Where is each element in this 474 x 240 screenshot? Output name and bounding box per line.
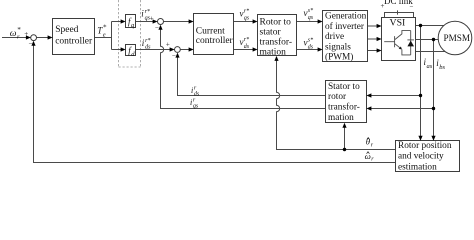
svg-text:−: − [155, 23, 159, 31]
svg-text:ds: ds [308, 45, 314, 51]
svg-text:+: + [166, 41, 170, 49]
svg-text:ds: ds [244, 44, 250, 50]
svg-text:r*: r* [145, 38, 150, 44]
svg-text:r: r [371, 157, 374, 163]
svg-text:ds: ds [145, 45, 151, 51]
svg-text:i: i [190, 98, 192, 107]
svg-text:bs: bs [439, 64, 445, 71]
svg-text:Generation: Generation [325, 12, 367, 22]
svg-text:r*: r* [244, 37, 249, 43]
svg-text:+: + [150, 14, 154, 22]
svg-text:controller: controller [55, 36, 93, 46]
svg-text:−: − [29, 40, 33, 48]
svg-text:Speed: Speed [55, 25, 78, 35]
svg-text:Rotor to: Rotor to [260, 18, 292, 28]
svg-text:drive: drive [325, 32, 344, 42]
svg-text:qs: qs [308, 15, 314, 21]
svg-text:controller: controller [196, 36, 234, 46]
svg-text:Current: Current [196, 27, 225, 37]
svg-text:ω: ω [10, 29, 17, 39]
svg-text:transfor-: transfor- [328, 102, 360, 113]
svg-text:estimation: estimation [398, 162, 437, 172]
svg-text:s*: s* [308, 8, 313, 14]
svg-text:Rotor position: Rotor position [398, 141, 452, 151]
svg-text:mation: mation [260, 47, 287, 57]
svg-text:e: e [103, 31, 106, 38]
svg-text:mation: mation [328, 113, 354, 123]
svg-text:transfor-: transfor- [260, 36, 293, 47]
svg-text:of inverter: of inverter [325, 21, 365, 32]
svg-text:VSI: VSI [390, 17, 406, 28]
svg-text:s*: s* [308, 38, 313, 44]
svg-text:PMSM: PMSM [444, 33, 471, 43]
svg-text:and velocity: and velocity [398, 152, 444, 162]
svg-text:(PWM): (PWM) [325, 52, 353, 63]
svg-text:r*: r* [244, 9, 249, 15]
svg-text:−: − [410, 3, 414, 11]
svg-text:qs: qs [193, 103, 199, 109]
svg-text:+: + [381, 2, 385, 10]
svg-text:rotor: rotor [328, 92, 347, 102]
svg-text:−: − [172, 52, 176, 60]
svg-text:stator: stator [260, 28, 282, 38]
svg-text:signals: signals [325, 42, 351, 52]
svg-text:qs: qs [244, 16, 250, 22]
svg-text:+: + [24, 30, 28, 38]
svg-text:r: r [371, 143, 374, 149]
svg-text:r: r [17, 33, 20, 40]
svg-text:i: i [191, 86, 193, 95]
svg-text:as: as [427, 63, 433, 70]
svg-text:Stator to: Stator to [328, 82, 360, 92]
